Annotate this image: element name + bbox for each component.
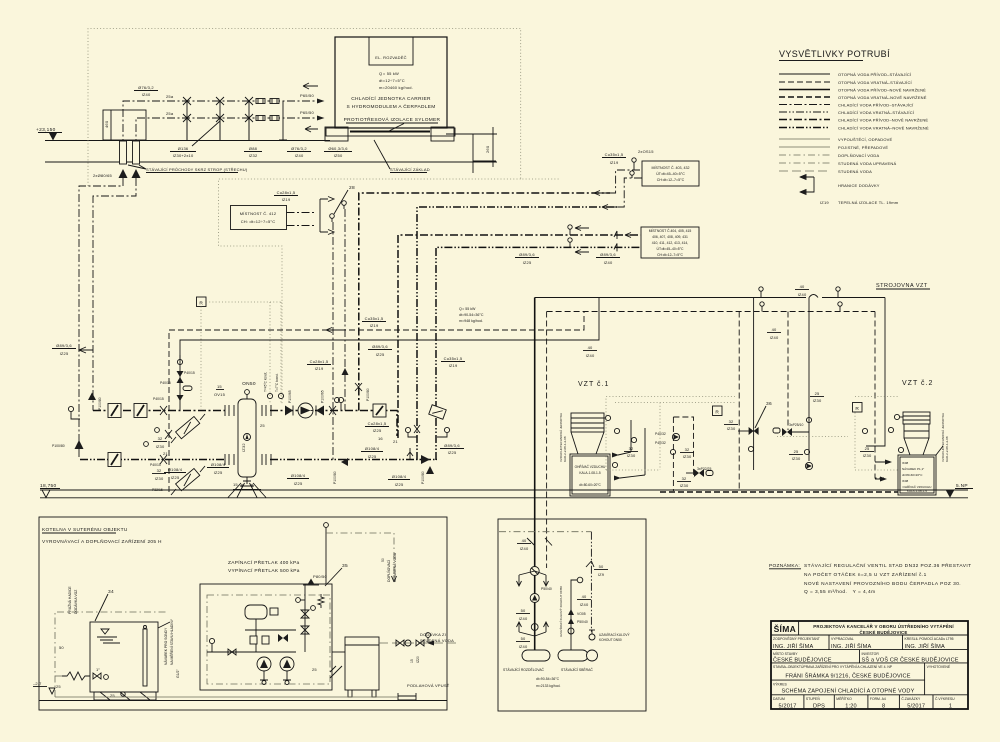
ahu2 thermo a: [862, 428, 867, 433]
flange pair vessel left: [225, 405, 234, 416]
svg-text:STUDENÁ VODA: STUDENÁ VODA: [420, 638, 454, 643]
R box vzt2: [853, 403, 863, 413]
svg-text:DOPLŇOVACÍ VODA: DOPLŇOVACÍ VODA: [838, 153, 880, 158]
pressure unit frame: [200, 584, 332, 690]
svg-text:ČESKÉ BUDĚJOVICE: ČESKÉ BUDĚJOVICE: [859, 630, 907, 635]
svg-text:Cu28x1,5: Cu28x1,5: [277, 190, 296, 195]
svg-text:Q = 3,55 m³/hod. Y = 4,4m: Q = 3,55 m³/hod. Y = 4,4m: [804, 589, 876, 595]
svg-text:–2,7: –2,7: [33, 681, 42, 686]
column lines: [798, 621, 800, 635]
ahu1 thermo b: [631, 437, 636, 442]
svg-text:15: 15: [233, 482, 238, 487]
svg-text:ING. JIŘÍ ŠÍMA: ING. JIŘÍ ŠÍMA: [831, 642, 871, 650]
svg-text:IZ40: IZ40: [580, 602, 589, 607]
sberac branch: [571, 580, 577, 650]
bracket arrows 404: [575, 226, 589, 255]
svg-text:IZ25: IZ25: [395, 482, 404, 487]
svg-text:2xOS15: 2xOS15: [638, 149, 654, 154]
thermo mid b: [804, 449, 809, 454]
svg-text:P100/65: P100/65: [321, 390, 325, 403]
svg-text:40: 40: [800, 284, 805, 289]
svg-text:P50/40: P50/40: [577, 620, 588, 624]
air vent on riser 180: [177, 359, 182, 364]
bottom dashed run: [660, 491, 898, 493]
right column valves: [304, 584, 306, 652]
svg-text:IZ30: IZ30: [627, 453, 636, 458]
check valve supply B: [316, 406, 324, 416]
svg-text:IZ25: IZ25: [373, 428, 382, 433]
pressure unit inner zone: [207, 595, 330, 684]
svg-text:KOTELNA V SUTERÉNU OBJEKTU: KOTELNA V SUTERÉNU OBJEKTU: [42, 526, 128, 533]
unit outlet right: [332, 651, 345, 653]
legend line studena voda: [779, 170, 830, 172]
dotted sensor line T7: [280, 302, 282, 404]
svg-text:KALA-1-08-1-5: KALA-1-08-1-5: [907, 489, 927, 493]
ahu1 thermo c: [612, 462, 617, 467]
valve V3 upper pipe: [245, 97, 253, 140]
slant filter on riser437: [429, 405, 447, 420]
support post: [279, 101, 287, 140]
tank base: [94, 692, 156, 700]
svg-text:35: 35: [342, 563, 348, 569]
svg-text:VYSVĚTLIVKY POTRUBÍ: VYSVĚTLIVKY POTRUBÍ: [779, 49, 890, 59]
svg-text:P100/80: P100/80: [98, 397, 102, 410]
thermo on riser 333: [335, 398, 340, 403]
roof pipe riser A: [123, 101, 318, 162]
riser jog A down-left: [79, 178, 123, 460]
chilled supply main left: [93, 410, 225, 412]
svg-text:CHLADÍCÍ VODA PŘÍVOD–STÁVAJÍCÍ: CHLADÍCÍ VODA PŘÍVOD–STÁVAJÍCÍ: [838, 103, 914, 108]
room 412 supply stub: [287, 212, 317, 214]
svg-text:Q = 55 kW: Q = 55 kW: [379, 71, 399, 76]
chimney upstand: [103, 110, 146, 140]
svg-text:IK08: IK08: [902, 479, 909, 483]
anchor riser333: [341, 458, 348, 466]
expansion riser ddd: [590, 532, 592, 633]
svg-text:T=45°C konst.: T=45°C konst.: [264, 372, 268, 392]
svg-text:15: 15: [217, 384, 222, 389]
line into valve36: [738, 430, 754, 432]
vessel drain fitting: [240, 484, 254, 488]
svg-text:UZAVÍRACÍ KULOVÝ: UZAVÍRACÍ KULOVÝ: [599, 633, 630, 637]
svg-text:IZ40: IZ40: [519, 644, 528, 649]
svg-text:PROJEKTOVÁ KANCELÁŘ V OBORU ÚS: PROJEKTOVÁ KANCELÁŘ V OBORU ÚSTŘEDNÍHO V…: [813, 624, 954, 629]
svg-text:m=948 kg/hod.: m=948 kg/hod.: [459, 319, 483, 323]
svg-text:IZ25: IZ25: [294, 481, 303, 486]
svg-text:OTOPNÁ VODA VRATNÁ–NOVĚ NAVRŽE: OTOPNÁ VODA VRATNÁ–NOVĚ NAVRŽENÉ: [838, 95, 927, 100]
thermo at line start: [68, 406, 73, 411]
svg-text:STÁVAJÍCÍ SBĚRAČ: STÁVAJÍCÍ SBĚRAČ: [561, 667, 593, 672]
svg-text:P65/50: P65/50: [300, 93, 314, 98]
svg-text:50: 50: [521, 608, 526, 613]
svg-text:Q = 55 kW: Q = 55 kW: [459, 307, 476, 311]
svg-text:25: 25: [260, 423, 265, 428]
svg-text:50: 50: [599, 564, 604, 569]
thermo on riser437: [444, 427, 449, 432]
svg-text:UPRAVENÁ VODA: UPRAVENÁ VODA: [393, 552, 397, 582]
svg-text:IZ30: IZ30: [680, 483, 689, 488]
floor line lower: [40, 497, 968, 499]
anchor riser93: [88, 393, 96, 401]
valve X on riser 358: [355, 383, 362, 391]
sylomer pad: [350, 131, 430, 133]
sberac cylinder: [558, 650, 588, 661]
svg-text:P50/40: P50/40: [541, 587, 552, 591]
anchor A: [119, 169, 128, 178]
svg-text:40: 40: [772, 327, 777, 332]
svg-text:50: 50: [59, 645, 64, 650]
boiler room box: [39, 517, 447, 710]
svg-text:IZ40: IZ40: [295, 153, 304, 158]
svg-text:dt=80-60=20°C: dt=80-60=20°C: [579, 483, 601, 487]
svg-text:Ø76/3,2: Ø76/3,2: [291, 146, 307, 151]
svg-text:32: 32: [158, 436, 163, 441]
svg-text:MÍSTNOST Č. 412: MÍSTNOST Č. 412: [240, 211, 277, 216]
svg-text:460: 460: [104, 120, 109, 128]
fill line dashdot: [55, 675, 62, 677]
cold water inlet: [434, 642, 456, 644]
svg-text:32: 32: [685, 447, 690, 452]
svg-text:IZ40: IZ40: [798, 292, 807, 297]
solenoid: [270, 608, 278, 615]
anchor B: [132, 169, 141, 178]
svg-text:ING. JIŘÍ ŠÍMA: ING. JIŘÍ ŠÍMA: [773, 642, 813, 650]
svg-text:STÁVAJÍCÍ PRŮCHODY SKRZ STROP: STÁVAJÍCÍ PRŮCHODY SKRZ STROP (STŘECHU): [146, 167, 248, 172]
svg-text:5/2017: 5/2017: [778, 704, 796, 710]
riser 412 return: [344, 209, 346, 411]
arrow hranice lower: [305, 126, 318, 132]
vzt2 riser dashed: [875, 312, 884, 479]
junction tick: [527, 538, 552, 546]
svg-text:IZ19: IZ19: [820, 200, 829, 205]
junction arrow y350: [79, 347, 93, 353]
svg-text:KAD-2-2-08-1-2-08: KAD-2-2-08-1-2-08: [563, 436, 567, 462]
svg-text:KAD-2-2-08-1-2-08: KAD-2-2-08-1-2-08: [945, 436, 949, 462]
svg-text:40: 40: [582, 594, 587, 599]
svg-text:IZ19: IZ19: [610, 160, 619, 165]
svg-text:IZ25: IZ25: [214, 470, 223, 475]
svg-text:DODÁVKA VOZ: DODÁVKA VOZ: [74, 590, 78, 614]
diagonal strainer lower: [176, 468, 200, 490]
tick 404 supply: [614, 231, 617, 239]
svg-text:P40/32: P40/32: [655, 432, 666, 436]
svg-text:VZT č.1: VZT č.1: [578, 381, 609, 388]
vent pair a: [759, 287, 763, 291]
dotted zone vzt1: [606, 397, 735, 471]
control valve mid: [773, 428, 780, 433]
heating return riser+run dashed: [169, 312, 584, 493]
svg-text:410, 411, 412, 413, 414,: 410, 411, 412, 413, 414,: [652, 241, 689, 245]
ball valve 412a: [330, 214, 335, 219]
svg-text:Ø108/4: Ø108/4: [211, 462, 226, 467]
hose valve: [93, 673, 101, 679]
room floor line: [39, 700, 447, 702]
legend line pojistne: [779, 146, 830, 148]
valve X supply: [160, 406, 167, 415]
branch valve: [568, 628, 574, 634]
svg-text:VYPRACOVAL: VYPRACOVAL: [831, 637, 854, 641]
svg-text:IZ19: IZ19: [282, 197, 291, 202]
valve V3 lower pipe: [245, 114, 253, 140]
svg-text:OV15: OV15: [214, 392, 226, 397]
leader sylomer: [389, 124, 404, 132]
svg-text:R: R: [855, 406, 859, 412]
hranice dodavky symbol: [800, 175, 814, 195]
el. rozvadec box: [369, 37, 413, 65]
pump P100/65: [298, 403, 313, 418]
svg-text:IZ50: IZ50: [334, 153, 343, 158]
svg-text:5/2017: 5/2017: [907, 704, 925, 710]
svg-text:34: 34: [108, 589, 114, 595]
thermo T7: [278, 393, 283, 398]
arrow on 404 supply: [625, 233, 637, 238]
roof slab left: [45, 140, 330, 142]
leader to valves: [192, 121, 220, 146]
svg-text:40: 40: [588, 345, 593, 350]
svg-text:Č.ZAKÁZKY: Č.ZAKÁZKY: [901, 696, 921, 701]
svg-text:P100/80: P100/80: [52, 444, 65, 448]
zone dashdot around tank: [55, 612, 168, 697]
svg-text:ÚT:dt=45–40=5°C: ÚT:dt=45–40=5°C: [656, 171, 685, 176]
svg-text:Ø60,3/3,6: Ø60,3/3,6: [328, 146, 348, 151]
dotted control line R right: [206, 301, 281, 303]
legend line vypousteci: [779, 138, 830, 140]
dotted row mid: [777, 436, 848, 438]
svg-text:MÍSTNOST Č.404, 405, 415: MÍSTNOST Č.404, 405, 415: [649, 228, 692, 233]
ahu1 hopper: [571, 413, 604, 432]
svg-text:OTOPNÁ VODA PŘÍVOD–NOVĚ NAVRŽE: OTOPNÁ VODA PŘÍVOD–NOVĚ NAVRŽENÉ: [838, 88, 926, 93]
svg-text:IZ30: IZ30: [792, 456, 801, 461]
svg-text:UZAVÍRACÍ KULOVÝ KOHOUT DN50: UZAVÍRACÍ KULOVÝ KOHOUT DN50: [559, 586, 563, 637]
mid riser solid: [808, 298, 810, 462]
svg-text:IZ30+2x10: IZ30+2x10: [173, 153, 194, 158]
water level mark: [97, 629, 120, 643]
vzt1 riser dashed: [738, 312, 740, 492]
svg-text:Ø136: Ø136: [178, 146, 189, 151]
svg-text:8: 8: [882, 704, 885, 710]
svg-text:P65/50: P65/50: [300, 110, 314, 115]
svg-text:IZ40: IZ40: [519, 616, 528, 621]
svg-text:IZ19: IZ19: [449, 363, 458, 368]
tick 404 return: [614, 243, 617, 251]
svg-text:VYHOTOVENÉ: VYHOTOVENÉ: [927, 664, 951, 669]
svg-text:2xØ80/65: 2xØ80/65: [93, 173, 113, 178]
dotted sensor line T45: [269, 302, 271, 404]
svg-text:NÁVAREK PRO SONDY: NÁVAREK PRO SONDY: [164, 627, 168, 665]
svg-text:Ø89/3,6: Ø89/3,6: [372, 344, 388, 349]
svg-text:IZ32: IZ32: [249, 153, 258, 158]
svg-text:IZ30: IZ30: [813, 398, 822, 403]
svg-text:Ø108/4: Ø108/4: [291, 473, 306, 478]
vent pair b: [836, 287, 840, 291]
svg-text:ŠÍMA: ŠÍMA: [774, 623, 796, 634]
ball valve 412b: [342, 201, 347, 206]
legend line otopna privod nove: [779, 89, 830, 91]
chiller unit body: [335, 37, 447, 128]
legend line doplnovaci: [779, 154, 830, 156]
check pair a: [250, 636, 257, 644]
svg-text:Ø108/4: Ø108/4: [365, 446, 380, 451]
svg-text:STUDENÁ VODA UPRAVENÁ: STUDENÁ VODA UPRAVENÁ: [838, 161, 896, 166]
flange return right: [262, 454, 271, 465]
svg-text:P40/15: P40/15: [150, 463, 161, 467]
svg-text:NÁVAREK P1,1″: NÁVAREK P1,1″: [902, 467, 924, 471]
tank: [90, 622, 158, 692]
flex connector pair lower: [256, 116, 265, 121]
ahu2 hopper: [903, 412, 930, 424]
R box regulation: [197, 297, 207, 307]
svg-text:Ø88: Ø88: [249, 146, 258, 151]
inlet components: [426, 633, 431, 638]
room 404 box: [641, 227, 699, 258]
valve V1 lower pipe: [183, 114, 191, 140]
safety line dashdot: [499, 531, 591, 533]
svg-text:CHLADÍCÍ VODA VRATNÁ–NOVĚ NAVR: CHLADÍCÍ VODA VRATNÁ–NOVĚ NAVRŽENÉ: [838, 126, 929, 131]
valve X below-left: [165, 430, 172, 439]
svg-text:DOPLŇOVACÍ: DOPLŇOVACÍ: [387, 560, 391, 582]
svg-text:R: R: [199, 300, 203, 306]
mid riser dashed: [787, 312, 789, 431]
svg-text:3xP25/10: 3xP25/10: [789, 423, 803, 427]
svg-text:Ø89/3,6: Ø89/3,6: [519, 252, 535, 257]
room 412 return stub: [287, 225, 317, 227]
svg-text:R: R: [715, 409, 719, 415]
check valve P40/15: [177, 371, 184, 383]
anchor left riser: [75, 440, 84, 449]
svg-text:IZ25: IZ25: [376, 352, 385, 357]
foot left: [325, 127, 348, 141]
pump2 existing: [530, 594, 539, 603]
svg-text:Ø89/3,6: Ø89/3,6: [56, 343, 72, 348]
vessel vent: [245, 390, 250, 395]
thermo right: [338, 397, 343, 402]
svg-text:OHŘÍVAČ VZDUCHU: OHŘÍVAČ VZDUCHU: [575, 464, 606, 469]
svg-text:32: 32: [729, 419, 734, 424]
svg-text:P80/50: P80/50: [313, 574, 327, 579]
svg-text:1: 1: [949, 704, 952, 710]
ahu2 thermo c: [894, 414, 899, 419]
anchor below return: [426, 466, 434, 474]
svg-text:EL. ROZVADĚČ: EL. ROZVADĚČ: [375, 55, 406, 60]
check valve 2: [177, 395, 184, 401]
riser 412 supply: [332, 222, 334, 460]
svg-text:25: 25: [815, 391, 820, 396]
roof slab right: [452, 133, 497, 135]
chilled line rooms404 return: [436, 247, 641, 460]
step up to room403: [610, 170, 642, 193]
svg-text:50: 50: [381, 558, 385, 562]
svg-text:m=2133 kg/hod.: m=2133 kg/hod.: [536, 684, 560, 688]
svg-text:P100/65: P100/65: [288, 390, 292, 403]
mid manifold: [245, 630, 296, 652]
riser to boiler dashed: [546, 312, 548, 569]
svg-text:IZ32: IZ32: [241, 443, 246, 452]
valve X return: [160, 455, 167, 464]
svg-text:DATUM: DATUM: [773, 697, 785, 701]
svg-text:dt=12÷7=5°C: dt=12÷7=5°C: [379, 78, 405, 83]
svg-text:IZ19: IZ19: [370, 323, 379, 328]
VO05: [568, 609, 574, 615]
svg-text:Cu28x1,5: Cu28x1,5: [368, 421, 387, 426]
ahu2 thermo b: [888, 427, 893, 432]
svg-text:OTOPNÁ VODA VRATNÁ–STÁVAJÍCÍ: OTOPNÁ VODA VRATNÁ–STÁVAJÍCÍ: [838, 80, 913, 85]
chilled line room403 supply: [359, 193, 610, 411]
legend line chladici vratna stavajici: [779, 111, 830, 113]
thermo on riser417: [405, 427, 410, 432]
svg-text:OTOPNÁ VODA PŘÍVOD–STÁVAJÍCÍ: OTOPNÁ VODA PŘÍVOD–STÁVAJÍCÍ: [838, 72, 912, 77]
pump feet valves: [260, 671, 291, 680]
svg-text:25: 25: [56, 684, 61, 689]
svg-text:40: 40: [522, 538, 527, 543]
svg-text:ON50: ON50: [242, 381, 256, 387]
svg-text:IZ25: IZ25: [171, 475, 180, 480]
vessel gauge: [244, 434, 251, 441]
room 403 box: [642, 161, 699, 186]
svg-text:CH: dt=12÷7=5°C: CH: dt=12÷7=5°C: [241, 219, 276, 224]
legend line chladici privod nove: [779, 119, 830, 121]
riser to boiler solid: [534, 298, 536, 653]
hranice bracket 412: [320, 197, 334, 235]
tick on ddd: [586, 561, 594, 567]
svg-text:INVESTOR: INVESTOR: [862, 652, 880, 656]
svg-text:P100/80: P100/80: [366, 388, 370, 401]
floor line upper: [40, 489, 968, 491]
title block frame: [771, 621, 968, 709]
arrow hranice upper: [303, 83, 318, 89]
svg-text:25: 25: [312, 667, 317, 672]
svg-text:STUDENÁ VODA: STUDENÁ VODA: [838, 169, 872, 174]
svg-text:21: 21: [393, 439, 398, 444]
svg-text:HRANICE DODÁVKY: HRANICE DODÁVKY: [838, 183, 880, 188]
svg-text:STUPEŇ: STUPEŇ: [806, 697, 820, 701]
row lines: [771, 634, 968, 636]
heating supply run y297: [535, 297, 885, 299]
dotted zone vzt2: [855, 397, 899, 471]
valve mid: [278, 634, 288, 642]
chilled return main left: [80, 459, 225, 461]
svg-text:IZ25: IZ25: [448, 450, 457, 455]
svg-text:CHLADÍCÍ VODA VRATNÁ–STÁVAJÍCÍ: CHLADÍCÍ VODA VRATNÁ–STÁVAJÍCÍ: [838, 110, 915, 115]
vent 404 a: [568, 225, 572, 229]
svg-text:KALA-1-08-1-5: KALA-1-08-1-5: [579, 471, 600, 475]
flex connector pair upper: [256, 99, 265, 104]
svg-text:IZ25: IZ25: [523, 260, 532, 265]
svg-text:IZ25: IZ25: [368, 454, 377, 459]
svg-text:IZ25: IZ25: [60, 351, 69, 356]
svg-text:IZ9: IZ9: [598, 572, 605, 577]
svg-text:PODLAHOVÁ VPUSŤ: PODLAHOVÁ VPUSŤ: [407, 683, 450, 688]
svg-text:dt=90-54=36°C: dt=90-54=36°C: [536, 677, 560, 681]
check valve return: [421, 455, 430, 464]
svg-text:dt=80-60=20°C: dt=80-60=20°C: [902, 473, 923, 477]
svg-text:MÍSTNOST Č. 403, 432: MÍSTNOST Č. 403, 432: [651, 165, 689, 170]
ahu2 thermo d: [898, 447, 903, 452]
svg-text:36: 36: [766, 401, 772, 407]
existing distribution box: [498, 519, 646, 711]
svg-text:CH:dt=12–7=5°C: CH:dt=12–7=5°C: [657, 178, 685, 182]
thermo small left pair: [144, 442, 149, 447]
arrows into ahu2: [880, 460, 892, 482]
arrow on 403 return: [602, 205, 616, 210]
diagonal strainer upper: [176, 416, 200, 438]
svg-text:ČESKÉ BUDĚJOVICE: ČESKÉ BUDĚJOVICE: [773, 656, 832, 664]
arrow on heating return run: [326, 328, 340, 333]
valve V1 upper pipe: [183, 97, 191, 140]
svg-text:IZ30: IZ30: [155, 476, 164, 481]
expansion vessel: [245, 605, 267, 619]
svg-text:25: 25: [865, 446, 870, 451]
chilled line room403 return: [417, 207, 618, 460]
